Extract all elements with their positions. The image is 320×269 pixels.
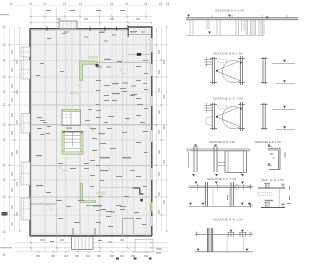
stair core green left band: [62, 133, 64, 155]
bottom solid arrow markers: [116, 258, 152, 260]
top stair bump mullions: [63, 21, 75, 28]
section G-G vertical connector: [279, 188, 281, 208]
bottom dimension chain lines: [15, 243, 168, 252]
section G-G right text smudges: [287, 186, 291, 204]
section C-C left trapezoid: [206, 117, 212, 126]
inter-core smudge: [66, 128, 72, 129]
section C-C post 3: [261, 103, 268, 130]
grid line horizontal 4 y=92: [8, 91, 168, 93]
interior partition y=125 dark: [30, 124, 152, 126]
stair core green bottom band: [62, 152, 83, 154]
annotation smudges dense top-center: [47, 32, 145, 42]
section F-F top ticks: [198, 184, 244, 190]
below-wall smudges: [40, 240, 162, 254]
annotation smudges center: [84, 80, 129, 217]
bottom small rectangle outline: [135, 240, 153, 253]
protrusion inner rails: [21, 47, 30, 220]
section A-A bottom line: [186, 34, 264, 36]
section C-C right level markers: [283, 106, 286, 129]
top grid bubbles row: [10, 3, 169, 5]
black column at green L1: [96, 64, 99, 66]
section G-G lower right T: [281, 203, 285, 208]
svg-text:SEZIONE B-B 1:50: SEZIONE B-B 1:50: [213, 52, 243, 56]
right wall window gaps: [151, 38, 153, 226]
section D-D post 1: [194, 146, 197, 172]
section I-I tick cluster 2: [239, 233, 247, 238]
section F-F top markers: [195, 182, 245, 185]
grid line horizontal 2 y=60: [8, 60, 168, 62]
green wall L1: [80, 61, 98, 80]
center bottom core: [123, 218, 134, 236]
grid line vertical A x=31: [30, 7, 32, 252]
wall inner face lines: [30, 29, 152, 236]
svg-text:SEZIONE A-A 1:50: SEZIONE A-A 1:50: [215, 9, 244, 13]
left protrusion 2: [21, 60, 30, 79]
section B-B funnel: [217, 60, 241, 82]
annotation smudges cluster 4: [36, 155, 135, 193]
svg-text:SEZIONE D-D 1:50: SEZIONE D-D 1:50: [209, 140, 235, 144]
bottom dimension ticks: [30, 242, 152, 253]
section C-C post 2 marker: [239, 108, 242, 111]
top bubble connector line: [10, 4, 168, 6]
stair core top dark edge: [62, 131, 83, 133]
stair core treads: [65, 132, 81, 149]
top dimension chain lines: [29, 17, 152, 23]
section B-B dashed label: [218, 60, 228, 63]
interior light verticals extra: [67, 27, 147, 236]
section I-I tick markers: [230, 230, 245, 233]
interior vertical partition x=80: [79, 29, 81, 236]
section C-C funnel hatch: [222, 119, 235, 126]
top dimension ticks: [30, 16, 152, 24]
right dimension ticks: [156, 26, 168, 232]
grid line horizontal 1 y=45: [8, 44, 168, 46]
section B-B vertex dot: [216, 70, 218, 72]
upper core divider: [70, 112, 72, 126]
left dim vertical text smudges: [12, 50, 18, 226]
section D-D box: [225, 151, 247, 173]
section F-F circle feature: [234, 185, 239, 190]
section C-C post 2: [238, 102, 245, 131]
far left edge marks: [2, 212, 8, 216]
interior vertical partition x=99.8: [99, 29, 101, 236]
annotation smudges top area: [46, 10, 140, 20]
section G-G upper right T: [281, 183, 285, 188]
upper core room: [62, 110, 81, 126]
annotation smudges cluster 3: [37, 117, 127, 151]
section F-F bottom line: [189, 206, 252, 208]
black column pair: [137, 53, 141, 56]
svg-text:SEZ. G-G 1:50: SEZ. G-G 1:50: [261, 178, 284, 182]
partition line to elbow: [100, 187, 133, 189]
section G-G upper line: [258, 187, 285, 189]
section I-I tick cluster 1: [228, 233, 235, 238]
section A-A top band: [186, 18, 298, 20]
section C-C dashed label: [218, 106, 228, 109]
svg-text:SEZIONE F-F 1:50: SEZIONE F-F 1:50: [207, 177, 236, 181]
section G-G upper left T: [249, 185, 254, 190]
outer wall outline: [30, 27, 152, 236]
interior partition y=105: [30, 104, 152, 106]
bump jamb verticals: [73, 228, 95, 236]
grid line horizontal 10 y=197: [8, 196, 168, 198]
upper core green top band: [62, 109, 81, 111]
building floor fill: [30, 27, 152, 236]
top stair bump: [59, 21, 77, 29]
section G-G lower hatched post: [264, 203, 270, 208]
section D-D bridge: [217, 163, 225, 166]
bottom stair bump treads: [75, 237, 89, 250]
grid line vertical D x=65: [64, 7, 66, 252]
section C-C vertex dot: [216, 116, 218, 118]
section D-D box inner verticals: [228, 151, 244, 172]
section B-B right level markers: [283, 60, 286, 83]
interior elbow wall: [133, 188, 144, 194]
door swing arcs: [46, 68, 126, 211]
green label near stair core: [70, 92, 78, 94]
grid line vertical F x=100: [99, 7, 101, 252]
section G-G lower line: [261, 207, 285, 209]
interior partition y=54.5 right: [128, 54, 152, 56]
section A-A top band fill: [186, 18, 298, 20]
section I-I thin verticals: [227, 235, 243, 252]
grid line horizontal 5 y=105: [8, 104, 168, 106]
interior vertical partition x=120.5: [122, 29, 124, 236]
bottom tick number smudges: [36, 256, 148, 257]
interior vertical partial x=72: [71, 29, 73, 110]
section E-E small marks: [268, 147, 275, 166]
grid line vertical B x=45: [44, 7, 46, 252]
section C-C left dimension cluster: [204, 103, 212, 113]
annotation smudges cluster 5: [56, 200, 139, 227]
labels above bottom wall: [100, 209, 125, 213]
section F-F top lines: [189, 186, 252, 188]
grid line horizontal 8 y=165: [8, 165, 168, 167]
left grid bubbles column: [3, 26, 5, 256]
section I-I bottom line: [195, 251, 253, 253]
dark partition stub bottom left: [30, 203, 57, 205]
section F-F posts: [205, 182, 233, 207]
left protrusion 3: [21, 114, 30, 134]
section B-B post 2 marker: [239, 62, 242, 65]
section I-I bottom markers: [197, 249, 249, 252]
section B-B post 3: [261, 57, 268, 84]
grid line horizontal 11 y=215: [8, 214, 168, 216]
section D-D bottom markers: [192, 174, 244, 177]
interior partition right section: [128, 34, 152, 36]
section E-E markers: [268, 145, 271, 167]
green label near L2: [97, 192, 105, 194]
interior partition y=165: [30, 165, 152, 167]
section A-A small ticks above: [212, 15, 287, 18]
interior partition y=62.3 right: [97, 61, 152, 63]
section G-G middle text: [265, 200, 274, 201]
grid line vertical G x=112: [111, 7, 113, 252]
section I-I posts: [207, 228, 212, 252]
left dimension chain lines: [10, 28, 20, 232]
grid line horizontal 6 y=125: [8, 124, 168, 126]
left protrusion 1: [21, 47, 30, 57]
left bubble connector line: [3, 26, 5, 256]
annotation smudges cluster 2: [40, 83, 147, 136]
section B-B left dimension cluster: [204, 57, 212, 67]
section B-B right level lines: [272, 63, 295, 84]
section D-D left ticks: [186, 148, 190, 169]
right wall window glazing lines: [151, 38, 152, 226]
section C-C funnel: [217, 106, 241, 128]
grid line horizontal 9 y=180: [8, 179, 168, 181]
grid line vertical I x=127: [126, 7, 128, 252]
grid line vertical E x=80: [79, 7, 81, 252]
right dim vertical text smudges: [159, 50, 165, 214]
interior dark wall stub x=128: [127, 28, 129, 37]
grid line horizontal 3 y=77: [8, 76, 168, 78]
interior vertical partition x=56.5: [56, 29, 58, 236]
section F-F thin verticals: [213, 188, 229, 207]
section B-B post 2: [238, 56, 245, 85]
section B-B funnel hatch: [222, 73, 235, 80]
stair core room: [62, 132, 83, 154]
interior partition y=197: [30, 196, 152, 198]
svg-text:SEZIONE H-H 1:50: SEZIONE H-H 1:50: [213, 218, 243, 222]
section I-I left T: [195, 232, 252, 237]
section A-A level markers: [187, 15, 269, 35]
upper core treads: [63, 115, 72, 118]
wall step top right: [127, 27, 129, 29]
section D-D top markers: [194, 145, 217, 148]
section E-E box: [268, 148, 280, 169]
section G-G lower left T: [249, 203, 254, 208]
section G-G dashed label 1: [258, 193, 273, 196]
grid line horizontal 7 y=140: [8, 139, 168, 141]
section G-G upper hatched post: [264, 183, 270, 188]
section E-E side text smudge: [285, 152, 286, 158]
section D-D top line: [190, 149, 250, 151]
section F-F mid text smudge: [227, 195, 228, 200]
grid line vertical H x=116: [115, 26, 117, 232]
svg-text:SEZIONE C-C 1:50: SEZIONE C-C 1:50: [213, 97, 243, 101]
annotation smudges cluster 1: [36, 31, 137, 76]
section A-A mullion verticals: [190, 20, 264, 35]
annotation smudges right wall column: [136, 60, 148, 225]
bottom wall: [30, 235, 152, 237]
left protrusion 5: [21, 198, 30, 220]
grid line vertical C x=57: [56, 7, 58, 252]
section C-C right level lines: [272, 109, 295, 130]
green wall L2: [81, 184, 96, 203]
section D-D post 2: [214, 146, 217, 172]
section B-B post 1: [210, 57, 217, 84]
far left dash row: [0, 15, 12, 248]
section C-C post 1: [210, 103, 217, 130]
left protrusion 4: [21, 162, 30, 185]
top wall jamb ticks: [47, 25, 128, 31]
section F-F bottom markers: [189, 203, 251, 206]
bottom stair bump: [72, 237, 94, 250]
interior dark dot: [140, 199, 143, 202]
svg-text:SEZIONE E-E 1:50: SEZIONE E-E 1:50: [255, 140, 281, 144]
grid line vertical J x=146: [145, 7, 147, 252]
stair core green right band: [81, 133, 83, 155]
green label near L1: [89, 56, 98, 58]
right dimension chain lines: [157, 27, 167, 231]
section I-I top line: [195, 234, 253, 236]
green wall right segment: [150, 202, 153, 212]
left dimension ticks: [9, 27, 21, 232]
